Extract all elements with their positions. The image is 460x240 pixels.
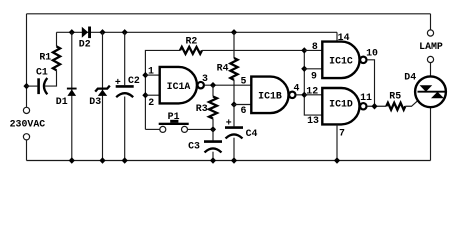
NAND gate IC1B xyxy=(251,77,299,114)
svg-text:D4: D4 xyxy=(404,72,416,83)
svg-text:IC1B: IC1B xyxy=(258,90,282,101)
svg-text:+: + xyxy=(115,77,121,88)
wire feedback column pins 8,9,12,13 xyxy=(304,50,322,115)
wire from 230VAC lower terminal to bottom rail xyxy=(26,140,28,161)
node pin10/pin11 tie xyxy=(371,103,377,109)
NAND gate IC1D xyxy=(322,88,372,124)
wire R3 bottom lead xyxy=(212,119,214,130)
node C2 bottom rail xyxy=(122,157,128,163)
node rail/C2 xyxy=(122,29,128,35)
node pin4/pin12 xyxy=(301,92,307,98)
svg-text:R1: R1 xyxy=(39,51,51,62)
wire R3 top lead xyxy=(212,85,214,96)
svg-text:D2: D2 xyxy=(79,38,91,49)
capacitor C3 xyxy=(188,141,222,153)
node pin6 tap xyxy=(231,101,237,107)
resistor R1 xyxy=(39,46,60,70)
node R3/P1/C3 xyxy=(210,126,216,132)
wire R2 to pin8 node xyxy=(202,49,304,51)
wire pin12 xyxy=(304,94,322,96)
wire triac bottom lead to bottom rail xyxy=(430,98,432,161)
pushbutton P1 xyxy=(159,111,189,133)
wire D3 branch xyxy=(102,32,104,160)
wire pin1 xyxy=(145,74,160,76)
node C4 bottom rail xyxy=(231,157,237,163)
svg-text:C3: C3 xyxy=(188,141,200,152)
svg-text:13: 13 xyxy=(307,115,319,126)
wire pin11 output to R5 xyxy=(367,105,386,107)
wire R1 top lead xyxy=(56,32,58,46)
wire pin14 from rail xyxy=(336,32,338,41)
svg-text:11: 11 xyxy=(360,92,372,103)
230VAC terminal lower xyxy=(23,134,29,140)
wire pin8 xyxy=(304,49,322,51)
svg-text:C4: C4 xyxy=(246,128,258,139)
wire P1 to R3 node xyxy=(188,128,214,130)
wire pin10 output down to pin11 xyxy=(367,60,374,106)
230VAC terminal upper xyxy=(23,107,29,113)
svg-text:R3: R3 xyxy=(196,103,208,114)
svg-text:+: + xyxy=(226,118,232,129)
LAMP terminal lower xyxy=(427,56,433,62)
wire top rail xyxy=(27,13,431,15)
capacitor C2 xyxy=(115,75,140,97)
node D3 bottom rail xyxy=(99,157,105,163)
svg-text:C2: C2 xyxy=(128,75,140,86)
wire pin9 xyxy=(304,68,322,70)
wire C1 left lead xyxy=(27,85,38,87)
svg-text:C1: C1 xyxy=(36,66,48,77)
svg-text:D1: D1 xyxy=(56,96,68,107)
diode D2 xyxy=(79,27,91,50)
wire pin4 output xyxy=(296,94,304,96)
node pin2 xyxy=(142,92,148,98)
wire C3 bottom lead xyxy=(212,152,214,161)
resistor R3 xyxy=(196,97,217,119)
capacitor C1 xyxy=(36,66,48,94)
wire C4 bottom lead xyxy=(233,138,235,161)
node pin8 xyxy=(301,47,307,53)
node pin9 xyxy=(301,66,307,72)
wire R4 bottom lead to pin3/pin5 line xyxy=(233,80,235,85)
node rail/D1 xyxy=(69,29,75,35)
svg-text:10: 10 xyxy=(366,47,378,58)
wire lamp drop from top rail xyxy=(430,14,432,30)
svg-text:IC1A: IC1A xyxy=(167,81,191,92)
node R3 tap xyxy=(210,82,216,88)
svg-text:12: 12 xyxy=(306,86,318,97)
wire node column down to pin6 xyxy=(233,85,235,104)
wire pin2 xyxy=(145,94,160,96)
svg-text:1: 1 xyxy=(148,66,154,77)
LAMP terminal upper xyxy=(427,30,433,36)
capacitor C4 xyxy=(225,118,257,139)
triac D4 xyxy=(404,72,446,108)
wire P1 branch xyxy=(145,128,159,130)
op-amp? no: NAND gate IC1A xyxy=(160,67,208,104)
wire bottom rail xyxy=(27,160,431,162)
wire R4 top lead xyxy=(233,32,235,58)
wire C4 top lead xyxy=(233,105,235,127)
svg-text:7: 7 xyxy=(339,127,345,138)
svg-text:2: 2 xyxy=(148,97,154,108)
svg-text:9: 9 xyxy=(311,70,317,81)
svg-text:230VAC: 230VAC xyxy=(10,119,46,130)
svg-text:IC1D: IC1D xyxy=(329,98,353,109)
node rail/D3 xyxy=(99,29,105,35)
node rail/R4 xyxy=(231,29,237,35)
resistor R5 xyxy=(386,90,405,110)
node pin1 xyxy=(142,72,148,78)
wire C2 top lead xyxy=(124,32,126,85)
wire pin7 to bottom rail xyxy=(336,125,338,161)
node C1/230VAC junction xyxy=(23,83,29,89)
wire D1 branch xyxy=(71,32,73,160)
wire R5 to triac gate xyxy=(405,100,418,106)
resistor R4 xyxy=(217,58,238,80)
svg-text:R2: R2 xyxy=(185,36,197,47)
wire C1 right lead up to R1 xyxy=(45,70,57,86)
svg-text:R5: R5 xyxy=(389,90,401,101)
svg-text:4: 4 xyxy=(294,83,300,94)
wire C3 top lead xyxy=(212,129,214,140)
node pin7 bottom rail xyxy=(334,157,340,163)
svg-text:P1: P1 xyxy=(168,111,180,122)
svg-text:6: 6 xyxy=(241,105,247,116)
svg-text:R4: R4 xyxy=(217,63,229,74)
svg-text:5: 5 xyxy=(241,75,247,86)
svg-text:8: 8 xyxy=(312,41,318,52)
svg-text:LAMP: LAMP xyxy=(419,41,443,52)
zener D3 xyxy=(89,86,110,108)
svg-text:IC1C: IC1C xyxy=(329,56,353,67)
node C3 bottom rail xyxy=(210,157,216,163)
diode D1 xyxy=(56,88,77,108)
wire R2 riser / IC1A input column xyxy=(145,50,180,129)
wire left drop to 230VAC upper terminal xyxy=(26,14,28,108)
svg-text:D3: D3 xyxy=(89,96,101,107)
wire DC rail y=32.3 xyxy=(57,31,338,33)
wire lamp lower terminal to triac xyxy=(430,63,432,86)
wire C2 bottom lead xyxy=(124,97,126,161)
resistor R2 xyxy=(180,36,202,54)
wire pin6 xyxy=(234,104,251,106)
node D1 bottom rail xyxy=(69,157,75,163)
NAND gate IC1C xyxy=(322,42,378,79)
wire pin3 output to IC1B pin5 xyxy=(205,84,252,86)
svg-text:3: 3 xyxy=(202,73,208,84)
